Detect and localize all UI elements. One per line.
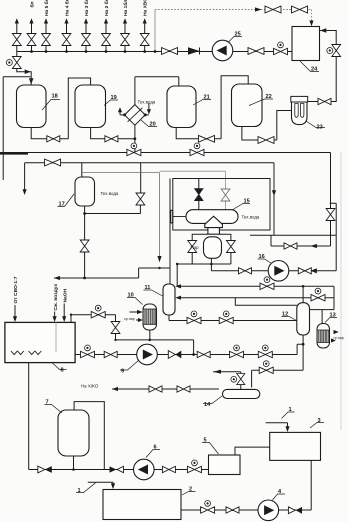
svg-text:19: 19 <box>111 95 117 101</box>
svg-text:7: 7 <box>46 400 49 406</box>
svg-text:На 1бл: На 1бл <box>122 0 129 16</box>
svg-text:Пар: Пар <box>191 245 200 250</box>
svg-text:Тех.вода: Тех.вода <box>138 100 156 105</box>
svg-text:Сж. воздух: Сж. воздух <box>53 283 59 310</box>
svg-text:25: 25 <box>235 32 241 38</box>
svg-text:20: 20 <box>150 122 156 128</box>
svg-text:1: 1 <box>78 488 81 494</box>
svg-text:24: 24 <box>311 67 318 73</box>
svg-text:18: 18 <box>52 94 58 100</box>
svg-text:22: 22 <box>266 94 272 100</box>
svg-text:ср.пар: ср.пар <box>124 317 135 321</box>
svg-text:5: 5 <box>204 438 207 444</box>
svg-text:гр.пар: гр.пар <box>334 336 344 340</box>
svg-text:На ХВО: На ХВО <box>143 0 149 16</box>
svg-text:бл: бл <box>28 1 35 7</box>
svg-text:На ХЖО: На ХЖО <box>81 384 99 389</box>
svg-text:8: 8 <box>61 368 64 374</box>
svg-text:11: 11 <box>145 285 151 291</box>
svg-text:13: 13 <box>330 313 336 319</box>
svg-text:На 5 бл: На 5 бл <box>43 0 50 16</box>
svg-text:17: 17 <box>59 202 65 208</box>
svg-text:10: 10 <box>128 293 134 299</box>
svg-text:2: 2 <box>189 487 192 493</box>
svg-text:На 3 бл: На 3 бл <box>83 0 90 16</box>
svg-text:3: 3 <box>318 418 321 424</box>
svg-text:9: 9 <box>121 369 124 375</box>
svg-text:NaOH: NaOH <box>62 288 68 302</box>
svg-text:Тех.вода: Тех.вода <box>101 191 119 196</box>
svg-text:От СВО-1:7: От СВО-1:7 <box>13 276 19 303</box>
svg-text:1: 1 <box>289 407 292 413</box>
svg-text:12: 12 <box>282 312 288 318</box>
svg-text:15: 15 <box>244 199 250 205</box>
svg-text:23: 23 <box>317 125 323 131</box>
svg-text:21: 21 <box>204 95 210 101</box>
svg-text:На 2 бл: На 2 бл <box>103 0 110 16</box>
svg-text:Тех.вода: Тех.вода <box>242 215 260 220</box>
svg-text:14: 14 <box>204 402 211 408</box>
svg-text:На 4 бл: На 4 бл <box>63 0 70 16</box>
svg-text:16: 16 <box>259 254 265 260</box>
svg-text:6: 6 <box>154 445 157 451</box>
